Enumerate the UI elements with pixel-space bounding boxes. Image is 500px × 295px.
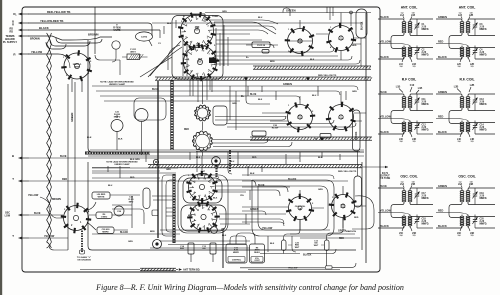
inner bottom-section box — [88, 162, 362, 250]
svg-text:4M73: 4M73 — [130, 50, 136, 53]
tertiary winding — [460, 122, 464, 123]
trimmer C20 — [473, 220, 477, 222]
coil bottom pin stubs — [402, 132, 412, 137]
shielded braid horizontal left — [85, 152, 150, 154]
junction drop to can E — [350, 13, 352, 27]
primary winding — [402, 22, 406, 24]
secondary winding — [408, 22, 412, 24]
grommet filled — [153, 159, 158, 164]
svg-text:R.F.: R.F. — [198, 62, 202, 64]
svg-text:BLK: BLK — [258, 99, 263, 101]
svg-text:BLACK: BLACK — [380, 131, 389, 134]
secondary winding — [408, 191, 412, 193]
shielded lead lozenge lower — [354, 176, 362, 207]
wire from R1 down to gang — [204, 14, 206, 22]
svg-text:YELLOW: YELLOW — [31, 50, 43, 54]
svg-text:RED: RED — [354, 217, 359, 219]
svg-text:MMFD: MMFD — [102, 231, 109, 233]
svg-text:BROWN: BROWN — [30, 38, 40, 41]
coil can stubs — [288, 13, 341, 42]
svg-text:YELLOW: YELLOW — [380, 210, 391, 213]
svg-text:L2B: L2B — [470, 84, 475, 87]
wire yellow-red — [19, 22, 29, 24]
svg-text:GREEN: GREEN — [286, 9, 296, 13]
twisted pair vertical — [47, 33, 52, 248]
coil top leads — [378, 188, 433, 190]
coil top leads — [436, 188, 495, 190]
coil crossover curves — [449, 109, 462, 124]
wire vertical x95 — [94, 7, 96, 54]
svg-text:YELLOW: YELLOW — [28, 194, 39, 197]
svg-text:YELLOW: YELLOW — [380, 116, 391, 119]
svg-text:L1B: L1B — [396, 86, 401, 89]
svg-text:OSC. COIL: OSC. COIL — [400, 175, 417, 179]
svg-text:L5B: L5B — [411, 184, 416, 186]
coil lower stubs — [262, 91, 366, 121]
coil mid lead — [410, 34, 433, 36]
svg-text:COIL: COIL — [338, 39, 344, 41]
thick vertical wire — [157, 81, 159, 238]
det-osc outer wire loop — [178, 175, 228, 233]
svg-text:MMFD.: MMFD. — [422, 130, 430, 132]
bottom mid wires — [92, 167, 130, 169]
resistor C23 vertical — [325, 240, 330, 251]
coil crossover curves — [449, 203, 462, 218]
resistor R1 hatched — [127, 54, 140, 60]
tertiary winding — [460, 47, 464, 48]
wire bundle loops — [46, 42, 66, 49]
svg-text:MMFD.: MMFD. — [480, 55, 488, 57]
wave switch tube socket — [61, 50, 92, 81]
svg-text:RED: RED — [352, 45, 357, 47]
coil mid lead — [410, 203, 433, 205]
svg-text:WHT: WHT — [295, 247, 300, 249]
inner top-section lines — [88, 150, 364, 156]
svg-text:GREEN: GREEN — [438, 91, 447, 94]
verticals below gang — [193, 79, 212, 102]
svg-text:MFD: MFD — [129, 201, 134, 203]
shield hatch band E — [148, 165, 362, 168]
svg-text:BLACK: BLACK — [438, 56, 447, 59]
svg-text:RED-YELLOW TR.: RED-YELLOW TR. — [318, 75, 337, 77]
grommet dots on shield band — [245, 77, 248, 80]
svg-text:YELLOW: YELLOW — [44, 235, 55, 238]
wires below lower shield box — [150, 241, 250, 248]
svg-text:BLUE: BLUE — [60, 155, 67, 158]
vol control cluster box1 — [226, 244, 247, 263]
vertical pair center — [197, 151, 202, 172]
svg-text:B: B — [12, 154, 14, 158]
svg-text:R.F COIL: R.F COIL — [402, 78, 417, 82]
svg-text:BLK: BLK — [270, 243, 275, 245]
svg-text:ANT. COIL: ANT. COIL — [401, 6, 418, 10]
svg-text:R: R — [12, 23, 14, 27]
trimmer C4 — [473, 51, 477, 53]
svg-text:COIL: COIL — [297, 42, 303, 44]
short stub segments for texture — [160, 20, 176, 38]
svg-text:BLK: BLK — [118, 139, 123, 141]
gang condenser section 2 — [181, 43, 219, 81]
trimmer C12 — [415, 126, 419, 128]
rf coil can top — [326, 23, 356, 53]
svg-text:AMP: AMP — [75, 66, 80, 69]
junction dot — [350, 11, 353, 14]
svg-text:C14: C14 — [480, 124, 485, 127]
component box C20 — [252, 131, 266, 136]
feed line to coil panel — [362, 166, 388, 168]
socket L connection arcs — [87, 202, 96, 230]
tertiary winding — [460, 216, 464, 217]
scan gutter edge strip — [0, 0, 2, 295]
coil crossover curves — [449, 34, 462, 49]
svg-text:WHITE: WHITE — [98, 196, 105, 198]
component box C9 — [252, 42, 270, 48]
svg-text:BLACK: BLACK — [380, 56, 389, 59]
primary winding — [460, 97, 464, 99]
svg-text:ANT TERM BD.: ANT TERM BD. — [183, 269, 200, 272]
coil bottom pin stubs — [402, 226, 412, 231]
svg-text:BLK: BLK — [87, 137, 92, 139]
primary winding — [460, 191, 464, 193]
secondary winding — [408, 97, 412, 99]
hairpin loop on green line — [283, 8, 290, 16]
svg-text:RED: RED — [438, 116, 443, 119]
coil lower-section leads — [378, 213, 410, 216]
wires socket H to right cans — [216, 186, 288, 196]
braid drop from grommet — [215, 166, 217, 179]
svg-text:BLU: BLU — [230, 161, 235, 163]
resistor C13 vertical — [210, 243, 216, 254]
svg-text:GREEN: GREEN — [438, 16, 447, 19]
svg-text:BLACK: BLACK — [438, 131, 447, 134]
svg-text:YELLOW-RED TR.: YELLOW-RED TR. — [40, 19, 64, 23]
svg-text:BLACK: BLACK — [39, 26, 49, 30]
capacitor circle C21 — [111, 120, 123, 132]
socket pin stubs — [72, 79, 82, 92]
wire black top — [19, 29, 29, 31]
nested elbow wires left of sockets — [162, 175, 176, 236]
resistor Bu — [320, 134, 331, 139]
svg-text:BLACK: BLACK — [380, 225, 389, 228]
tertiary winding — [402, 122, 406, 123]
svg-text:BLK: BLK — [167, 23, 172, 25]
coil lower-section leads — [378, 119, 410, 122]
quaternary winding — [466, 47, 470, 48]
coil bottom pin stubs — [460, 226, 470, 231]
wires socket I to right — [219, 214, 286, 224]
resistor R6 box — [96, 212, 112, 219]
svg-text:MMFD.: MMFD. — [422, 29, 430, 31]
twisted pair bottom elbow — [49, 245, 68, 250]
svg-text:MMFD.: MMFD. — [480, 224, 488, 226]
svg-text:BROWN: BROWN — [88, 33, 99, 37]
trimmer C18 — [415, 220, 419, 222]
verticals right of gang — [216, 25, 228, 66]
svg-text:BLK: BLK — [196, 157, 201, 159]
wire yellow R3 — [19, 53, 29, 55]
osc coil can left — [286, 194, 314, 221]
svg-text:BLK: BLK — [222, 235, 227, 237]
svg-text:GREEN: GREEN — [283, 83, 292, 86]
svg-text:GRN: GRN — [222, 11, 227, 13]
trimmer C14 — [473, 126, 477, 128]
coil form circle small — [135, 109, 148, 122]
svg-text:B+: B+ — [241, 94, 245, 98]
svg-text:OSC. COIL: OSC. COIL — [458, 175, 475, 179]
quaternary winding — [408, 122, 412, 123]
misc connecting wires lower — [216, 180, 256, 186]
wire drops from osc area to bottom — [268, 236, 296, 252]
svg-text:L1B: L1B — [418, 87, 423, 90]
wire black bottom — [260, 249, 336, 254]
svg-text:YELLOW: YELLOW — [288, 268, 298, 270]
coil form scalloped lower — [192, 131, 212, 151]
extra gang-to-can runs — [214, 22, 276, 34]
svg-text:RED: RED — [438, 41, 443, 44]
svg-text:MMFD: MMFD — [233, 252, 240, 254]
svg-text:L1B: L1B — [411, 15, 416, 17]
svg-text:BLACK: BLACK — [355, 131, 358, 140]
svg-text:BLUE: BLUE — [380, 185, 387, 188]
svg-text:RHEO: RHEO — [254, 252, 260, 254]
svg-text:BRN: BRN — [150, 231, 155, 233]
secondary winding — [466, 22, 470, 24]
svg-text:RED: RED — [180, 248, 185, 250]
trimmer C17 — [415, 194, 419, 196]
svg-text:T: T — [12, 177, 14, 181]
component L26 box — [92, 192, 110, 199]
shielded lead lozenge top — [356, 9, 367, 38]
coil top leads — [378, 94, 433, 96]
capacitor C26 box — [97, 227, 114, 234]
wire R1 red-yellow — [19, 13, 29, 15]
diagonal routed wires upper middle — [148, 41, 181, 77]
ant term bd line — [80, 269, 140, 271]
svg-text:COIL: COIL — [338, 118, 344, 120]
verticals left of gang A — [183, 36, 187, 76]
wire yellow left bottom — [19, 237, 29, 239]
svg-text:COIL: COIL — [341, 207, 347, 209]
svg-text:RED: RED — [252, 157, 257, 159]
svg-text:1ST DET: 1ST DET — [199, 173, 209, 175]
resistor C14 vertical — [188, 243, 194, 254]
top border drops — [327, 7, 333, 20]
svg-text:L2B: L2B — [454, 86, 459, 89]
svg-text:MMFD.: MMFD. — [480, 130, 488, 132]
coil top leads — [378, 19, 433, 21]
svg-text:BLACK: BLACK — [303, 254, 312, 257]
svg-text:RED: RED — [130, 177, 135, 179]
svg-text:L2B: L2B — [469, 15, 474, 17]
top border feed line green — [205, 12, 371, 14]
gang condenser section 1 — [178, 12, 216, 50]
trimmer C13 — [473, 100, 477, 102]
vol control cluster box2 — [250, 244, 265, 263]
component box small — [262, 50, 269, 54]
svg-text:GRN: GRN — [318, 189, 323, 191]
svg-text:Figure 8—R. F. Unit Wiring Dia: Figure 8—R. F. Unit Wiring Diagram—Model… — [95, 283, 404, 292]
svg-text:R.F. COIL: R.F. COIL — [459, 78, 474, 82]
wire osc blue left — [19, 214, 29, 216]
wire to resistor bottom — [240, 267, 325, 269]
svg-text:MMFD.: MMFD. — [422, 224, 430, 226]
cluster jumper wires — [230, 236, 246, 244]
svg-text:RED: RED — [62, 178, 67, 181]
svg-text:BLUE: BLUE — [258, 184, 265, 187]
coil lower-section leads — [436, 213, 468, 216]
det tube shield box — [183, 178, 222, 203]
svg-text:P.S TUBE: P.S TUBE — [380, 178, 391, 180]
svg-text:MMFD.: MMFD. — [422, 55, 430, 57]
shielded lead lozenge mid — [353, 110, 361, 151]
primary winding — [460, 22, 464, 24]
wires into lower shield boxes — [92, 168, 178, 171]
quaternary winding — [466, 122, 470, 123]
coil form scalloped upper — [195, 105, 211, 121]
svg-text:UNDER CLAMP: UNDER CLAMP — [109, 83, 126, 86]
braided shield vertical — [171, 80, 174, 150]
svg-text:CONT: CONT — [254, 260, 260, 262]
svg-text:GRN: GRN — [232, 103, 237, 105]
coil mid lead — [468, 203, 495, 205]
svg-text:MMFD.: MMFD. — [480, 29, 488, 31]
svg-text:BLACK: BLACK — [120, 231, 128, 234]
rf coil can lower — [326, 102, 356, 132]
trimmer C11 — [415, 100, 419, 102]
svg-text:GREEN: GREEN — [70, 113, 74, 122]
svg-text:BLUE: BLUE — [380, 91, 387, 94]
svg-text:MMFD.: MMFD. — [480, 104, 488, 106]
svg-text:GREEN: GREEN — [250, 208, 259, 211]
nested wire loops around osc cans — [252, 180, 334, 236]
svg-text:COIL: COIL — [297, 118, 303, 120]
wires dropping from sockets to resistors — [284, 220, 301, 241]
shield box around coil forms — [213, 106, 227, 125]
loop around osc can K — [352, 196, 374, 229]
svg-text:1 MEG: 1 MEG — [101, 216, 108, 218]
svg-text:ON CHASSIS: ON CHASSIS — [77, 259, 91, 262]
2nd det tube socket — [61, 203, 91, 233]
quaternary winding — [408, 216, 412, 217]
scallop radial ticks — [193, 105, 212, 150]
svg-text:GRN: GRN — [166, 169, 171, 171]
svg-text:TUNG: TUNG — [212, 16, 218, 18]
svg-text:GRN: GRN — [128, 241, 133, 243]
tertiary winding — [402, 216, 406, 217]
component C15 tall lozenge — [143, 188, 150, 209]
svg-text:WHT: WHT — [314, 245, 319, 247]
svg-text:RD: RD — [10, 31, 14, 34]
svg-text:RED-YELLOW TR.: RED-YELLOW TR. — [47, 10, 71, 14]
resistor C25 vertical — [282, 240, 287, 251]
svg-text:C4 R2: C4 R2 — [141, 36, 148, 39]
svg-text:T: T — [12, 234, 14, 238]
grommet open — [153, 240, 162, 249]
coil bottom pin stubs — [402, 57, 412, 62]
svg-text:RED: RED — [339, 238, 344, 240]
svg-text:PL SUPPLY: PL SUPPLY — [3, 40, 17, 44]
coil lower-section leads — [436, 44, 468, 47]
wire B+ left — [19, 157, 29, 159]
svg-text:BLK: BLK — [213, 198, 218, 200]
shield hatch band C — [250, 137, 372, 140]
svg-text:BLU: BLU — [108, 185, 113, 187]
ant coil can lower — [286, 103, 316, 133]
wire gang1 to ant coil — [213, 26, 276, 30]
braid continuation lower — [173, 174, 175, 243]
coil crossover curves — [391, 203, 404, 218]
coil mid lead — [468, 34, 495, 36]
gang L shielded drop — [81, 231, 83, 253]
trimmer unit circle S4 — [112, 41, 120, 49]
svg-text:CONTROL: CONTROL — [232, 260, 242, 262]
svg-text:OSC: OSC — [5, 213, 10, 215]
svg-text:BRN: BRN — [270, 61, 275, 63]
coil crossover curves — [391, 109, 404, 124]
svg-text:BLACK: BLACK — [361, 21, 364, 30]
capacitor circle C24 — [114, 206, 124, 216]
coil bottom pin stubs — [460, 132, 470, 137]
svg-text:BLK-GRN: BLK-GRN — [130, 159, 140, 161]
svg-text:BLACK: BLACK — [380, 16, 389, 19]
svg-text:R5 MF: R5 MF — [272, 127, 279, 129]
tube socket osc — [187, 201, 220, 232]
wire bundle gang to coils — [214, 48, 334, 52]
svg-text:BLACK: BLACK — [438, 225, 447, 228]
trimmer C1 — [415, 25, 419, 27]
svg-text:C10: C10 — [410, 84, 415, 87]
svg-text:BLU: BLU — [258, 17, 263, 19]
svg-text:GRN: GRN — [352, 91, 357, 93]
primary winding — [402, 191, 406, 193]
svg-text:RED: RED — [438, 210, 443, 213]
osc tube shield box — [181, 205, 226, 231]
grommet ring center — [212, 157, 221, 166]
coil top leads — [436, 94, 495, 96]
trimmer C2 — [415, 51, 419, 53]
mid horizontal wires — [92, 86, 358, 90]
inner top-section box left edge — [88, 40, 364, 152]
osc can stubs — [300, 186, 366, 230]
secondary winding — [466, 191, 470, 193]
svg-text:MAROON: MAROON — [346, 230, 356, 233]
shield hatch band B — [155, 77, 371, 80]
verticals joining sections — [228, 152, 238, 174]
svg-text:RED: RED — [184, 129, 189, 131]
svg-text:BLACK: BLACK — [288, 178, 297, 181]
quaternary winding — [466, 216, 470, 217]
wire brown — [19, 35, 29, 37]
wire bundle mid-right upper — [215, 116, 356, 127]
coil mid lead — [468, 109, 495, 111]
coil top leads — [436, 19, 495, 21]
secondary winding — [466, 97, 470, 99]
coil mid lead — [410, 109, 433, 111]
primary winding — [402, 97, 406, 99]
gang condenser assembly outline — [172, 16, 223, 80]
osc coil can right — [329, 193, 357, 221]
coil crossover curves — [391, 34, 404, 49]
svg-text:BLK: BLK — [250, 173, 255, 175]
outer chassis border — [22, 7, 380, 272]
svg-text:LOW: LOW — [5, 216, 11, 218]
svg-text:RED-YELLOW TR.: RED-YELLOW TR. — [338, 171, 357, 173]
svg-text:L6B: L6B — [469, 184, 474, 186]
svg-text:BROWN: BROWN — [52, 199, 61, 201]
svg-text:UNITS: UNITS — [114, 30, 121, 32]
wire brown 2 — [70, 37, 112, 40]
svg-text:UNDER CLAMP: UNDER CLAMP — [114, 163, 130, 166]
